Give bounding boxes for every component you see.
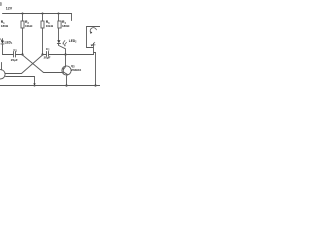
transistor Q2	[62, 66, 71, 75]
wire R4 branch upper	[58, 14, 60, 22]
svg-text:180Ω: 180Ω	[62, 24, 70, 28]
svg-text:20µF: 20µF	[11, 58, 18, 62]
wire LED1 anode stub	[2, 39, 4, 41]
node rail junction x22	[22, 13, 24, 15]
wire C1 to node A	[16, 54, 23, 56]
wire C2 to node C	[49, 54, 66, 56]
wire R4 to LED2	[58, 28, 60, 40]
capacitor C2	[46, 52, 48, 57]
wire cross diagonal A (node A to Q2 base)	[23, 55, 63, 73]
capacitor C1	[13, 52, 15, 58]
callout curl arrow	[90, 28, 96, 33]
svg-text:LED1: LED1	[5, 40, 13, 45]
svg-text:C1: C1	[13, 48, 17, 53]
LED LED1	[1, 41, 4, 44]
wire Q2 emitter	[66, 75, 69, 86]
svg-text:10kΩ: 10kΩ	[25, 24, 33, 28]
callout box top-right	[87, 27, 101, 48]
wire cross diagonal B (node B to Q1 base)	[5, 55, 43, 74]
node rail junction x42	[42, 13, 44, 15]
callout mini LED symbol	[92, 42, 95, 45]
wire LED1 cathode to coupling	[2, 44, 4, 54]
node C junction coupling/collector Q2	[64, 53, 66, 55]
svg-text:C2: C2	[46, 47, 50, 52]
LED LED2	[57, 40, 60, 43]
svg-text:c: c	[0, 1, 2, 7]
wire R3 branch lower	[42, 28, 44, 55]
node B junction C2/R3/cross	[41, 53, 43, 55]
wire top rail 12V	[3, 13, 72, 15]
node D junction bottom right	[94, 84, 96, 86]
wire rail right corner stub	[71, 14, 73, 21]
wire node C to right column	[66, 54, 94, 56]
resistor R4	[58, 21, 61, 28]
svg-text:20µF: 20µF	[44, 56, 51, 60]
wire bottom ground rail	[0, 85, 100, 87]
node F emitter junction on rail	[65, 84, 67, 86]
svg-text:180Ω: 180Ω	[1, 24, 9, 28]
wire R3 branch upper	[42, 14, 44, 22]
svg-text:12V: 12V	[6, 7, 13, 11]
svg-text:LED2: LED2	[69, 39, 77, 44]
wire right column jog to rail drop	[94, 53, 96, 86]
wire right column riser	[93, 43, 95, 54]
node E emitter junction on rail	[34, 85, 36, 87]
wire coupling right (node B to C2)	[43, 54, 47, 56]
wire coupling left (to C1)	[3, 54, 14, 56]
wire collector Q2	[65, 55, 67, 67]
transistor Q1 emitter arrow to ground	[33, 83, 35, 85]
transistor Q1 (cut at left edge)	[0, 70, 5, 79]
wire R2 branch upper	[22, 14, 24, 22]
node A junction C1/R2/cross	[21, 53, 23, 55]
wire Q1 emitter run	[4, 76, 34, 83]
resistor R3	[41, 21, 44, 28]
node rail junction x58	[58, 13, 60, 15]
svg-text:2N3904: 2N3904	[71, 68, 82, 72]
wire LED2 to collector jog	[59, 44, 66, 55]
wire R2 branch lower	[22, 28, 24, 55]
svg-text:10kΩ: 10kΩ	[46, 24, 54, 28]
resistor R2	[21, 21, 24, 28]
